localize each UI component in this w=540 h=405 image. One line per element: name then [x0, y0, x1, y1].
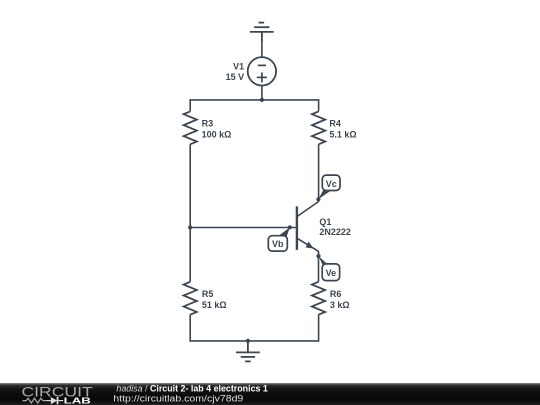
svg-text:http://circuitlab.com/cjv78d9: http://circuitlab.com/cjv78d9	[113, 394, 243, 404]
node junction dot base wire at left branch	[188, 225, 192, 229]
resistor R6	[312, 282, 325, 315]
ground GND bottom	[236, 341, 260, 362]
node flag Ve	[319, 256, 340, 281]
resistor R3	[184, 111, 197, 144]
node junction dot at bottom ground	[246, 339, 250, 343]
resistor R4	[312, 111, 325, 144]
V1 minus sign	[258, 64, 266, 66]
logo resistor zigzag	[23, 398, 47, 403]
logo diode symbol	[46, 397, 63, 404]
wire bottom bus horizontal	[190, 340, 318, 342]
node junction dot emitter flag attachment	[316, 254, 320, 258]
wire from V1 minus terminal down to top bus	[261, 86, 263, 100]
wire base horizontal to Q1	[190, 227, 296, 229]
ground GND top (power rail ground above V1)	[250, 23, 274, 42]
wire emitter vertical (Q1 to R6 top)	[318, 251, 320, 282]
footer black bar	[0, 383, 540, 405]
node flag Vb	[268, 227, 290, 251]
svg-text:LAB: LAB	[64, 395, 91, 405]
resistor R5	[184, 282, 197, 315]
voltage source V1 circle	[248, 57, 276, 85]
V1 plus sign	[257, 72, 267, 82]
wire left branch lower lead	[189, 315, 191, 342]
node junction dot collector flag attachment	[316, 197, 320, 201]
node junction dot base flag attachment	[288, 225, 292, 229]
wire from top ground to V1 plus terminal	[261, 42, 263, 57]
node junction dot at V1 / top bus	[260, 98, 264, 102]
wire left branch middle (R3 bottom to R5 top)	[189, 144, 191, 281]
wire left branch upper lead	[189, 99, 191, 111]
node flag Vc	[318, 175, 340, 199]
transistor Q1 (NPN)	[297, 202, 319, 252]
wire right branch lower lead	[318, 315, 320, 342]
wire collector vertical (R4 bottom to Q1)	[318, 144, 320, 202]
wire top bus horizontal	[190, 99, 318, 101]
svg-text:hadisa / Circuit 2- lab 4 elec: hadisa / Circuit 2- lab 4 electronics 1	[116, 384, 268, 394]
wire right branch upper lead	[318, 99, 320, 111]
